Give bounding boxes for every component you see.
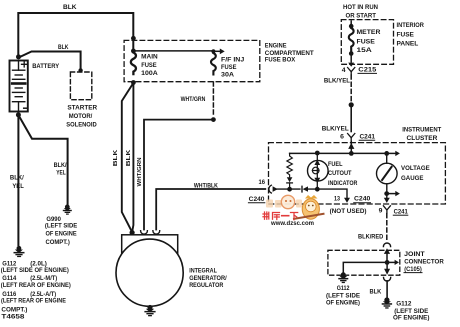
svg-text:METER: METER [357, 29, 381, 36]
svg-text:FUSE: FUSE [141, 62, 157, 69]
svg-text:HOT IN RUN: HOT IN RUN [343, 4, 378, 11]
svg-text:15A: 15A [357, 47, 373, 54]
svg-text:(C105): (C105) [404, 266, 422, 273]
junction dot above fuse box top [131, 36, 136, 41]
svg-text:OF ENGINE): OF ENGINE) [326, 300, 360, 307]
underline (C105) [404, 272, 422, 274]
label MAIN FUSE 100A [141, 54, 158, 78]
svg-text:(LEFT SIDE: (LEFT SIDE [326, 292, 361, 299]
svg-text:OR START: OR START [346, 13, 377, 20]
svg-text:BLK/YEL: BLK/YEL [324, 78, 350, 85]
resistor (cluster) [287, 153, 292, 176]
diode on WHT/BLK run [302, 186, 308, 192]
svg-text:(LEFT REAR OF ENGINE): (LEFT REAR OF ENGINE) [1, 282, 71, 289]
underline C241 (pin 9) [393, 214, 408, 216]
ground at generator [144, 305, 155, 316]
label METER FUSE 15A [357, 29, 381, 54]
underline C240 (pin 16) [248, 202, 264, 204]
red CJK glyph blocks (drawn) [263, 212, 298, 220]
svg-text:YEL: YEL [56, 169, 66, 176]
label INTEGRAL GENERATOR/REGULATOR [189, 268, 227, 290]
svg-text:MOTOR/: MOTOR/ [69, 113, 93, 120]
svg-text:GENERATOR/: GENERATOR/ [189, 275, 227, 282]
arrow down at joint connector bottom [384, 262, 390, 274]
connector C241 (pin 6) [348, 134, 355, 142]
svg-text:C241: C241 [360, 133, 376, 140]
svg-text:SOLENOID: SOLENOID [66, 122, 97, 129]
underline C241 (pin 6) [359, 139, 375, 141]
svg-text:INTEGRAL: INTEGRAL [189, 268, 217, 275]
svg-text:13: 13 [334, 195, 340, 202]
svg-text:4: 4 [342, 67, 346, 74]
integral generator/regulator [116, 235, 183, 306]
label 4 C215 [342, 67, 377, 75]
svg-text:FUSE: FUSE [221, 64, 237, 71]
junction dot resistor bottom [287, 187, 292, 192]
junction dot BLK/YEL [349, 102, 354, 107]
connector 16 C240 at cluster left border [269, 185, 278, 193]
arrow down at cluster bottom border [384, 198, 390, 203]
wire WHT/GRN dashed from F/F INJ fuse [212, 82, 214, 117]
label STARTER MOTOR/SOLENOID [66, 104, 97, 128]
junction dot meter fuse top [349, 24, 354, 29]
junction dot inside joint connector [385, 260, 390, 265]
ground G112 (battery) [14, 246, 25, 257]
wire BLK battery positive to engine compartment fuse box (top run) [18, 13, 133, 57]
svg-text:WHT/GRN: WHT/GRN [181, 96, 206, 103]
label BLK/YEL (G990 wire) [54, 162, 67, 176]
wire BLK/RED dashed [386, 214, 388, 242]
svg-text:FUEL: FUEL [328, 161, 343, 168]
ground G990 [63, 205, 72, 215]
svg-text:C241: C241 [394, 208, 409, 215]
svg-text:9: 9 [379, 208, 383, 215]
meter fuse 15A [349, 28, 354, 51]
wire BLK fuse box to generator (left bowed run) [122, 83, 133, 231]
svg-text:CONNECTOR: CONNECTOR [404, 259, 444, 266]
wire cluster internal bus [290, 152, 387, 154]
wire BLK/YEL dashed below C215 [350, 75, 352, 101]
interior fuse panel box [341, 20, 393, 65]
junction dot fuel indicator bottom [315, 187, 320, 192]
label FUEL CUTOUT INDICATOR [328, 161, 358, 187]
svg-text:BLK/: BLK/ [54, 162, 67, 169]
svg-text:VOLTAGE: VOLTAGE [401, 165, 430, 172]
junction dot main fuse top [131, 49, 136, 54]
svg-text:BLK: BLK [370, 289, 382, 296]
junction dot WHT/GRN [211, 117, 216, 122]
main fuse 100A [131, 53, 136, 75]
ground G112 (right) [382, 297, 392, 308]
svg-text:www.dzsc.com: www.dzsc.com [270, 220, 314, 227]
wire meter fuse to connector C215 [350, 54, 352, 63]
label F/F INJ FUSE 30A [221, 57, 245, 79]
svg-text:WHT/GRN: WHT/GRN [137, 158, 143, 187]
svg-text:GAUGE: GAUGE [401, 175, 424, 182]
svg-text:6: 6 [340, 133, 344, 140]
connector cup at joint connector entry [383, 243, 390, 247]
arrow continuation right of F/F INJ fuse [213, 49, 224, 55]
junction dot bus at entry [349, 151, 354, 156]
connector C215 [348, 63, 355, 74]
svg-text:G112: G112 [337, 285, 350, 292]
underline C240 (pin 13) [354, 202, 371, 204]
svg-text:C240: C240 [249, 196, 265, 203]
wire cluster entry from C241 [350, 142, 352, 154]
arrow up into joint connector [384, 248, 390, 262]
engine compartment fuse box [124, 40, 260, 81]
F/F INJ fuse 30A [211, 53, 216, 75]
wire BLK/YEL battery negative to ground G112 [17, 115, 19, 245]
junction dot at generator box top [130, 230, 135, 235]
svg-text:(LEFT SIDE OF ENGINE): (LEFT SIDE OF ENGINE) [1, 267, 69, 274]
svg-text:OF ENGINE: OF ENGINE [46, 231, 78, 238]
arrow continuation right of bus [387, 151, 400, 156]
svg-text:CLUSTER: CLUSTER [407, 135, 438, 142]
wire BLK/YEL to instrument cluster [350, 105, 352, 132]
svg-text:JOINT: JOINT [404, 251, 425, 258]
svg-text:C240: C240 [354, 196, 371, 203]
arrow up at cluster top border [348, 143, 354, 149]
fuel cutout indicator [308, 153, 329, 189]
svg-text:COMPT.): COMPT.) [1, 307, 27, 314]
svg-text:30A: 30A [221, 72, 234, 79]
svg-text:REGULATOR: REGULATOR [189, 282, 224, 289]
svg-text:COMPT.): COMPT.) [46, 239, 70, 246]
wire WHT/BLK generator to instrument cluster [156, 189, 265, 230]
svg-text:BLK/YEL: BLK/YEL [322, 125, 349, 132]
junction dot battery positive [16, 54, 21, 59]
svg-text:ENGINE: ENGINE [265, 42, 287, 49]
wire BLK fuse box to generator (straight run) [132, 83, 133, 232]
junction dot below voltage gauge [384, 191, 389, 196]
ground G112 (joint connector left) [338, 272, 348, 283]
label G112 (right) [393, 300, 429, 321]
svg-text:PANEL: PANEL [397, 41, 419, 48]
svg-text:16: 16 [259, 179, 266, 186]
svg-text:100A: 100A [141, 70, 158, 77]
wire BLK joint connector to ground G112 (right) [386, 281, 388, 298]
junction dot battery negative [16, 112, 21, 117]
wire WHT/BLK inside cluster [277, 189, 347, 198]
svg-text:(LEFT SIDE: (LEFT SIDE [45, 223, 78, 230]
connector cup below joint connector [384, 277, 391, 281]
junction dot bus at voltage gauge [384, 151, 389, 156]
svg-text:INDICATOR: INDICATOR [328, 180, 358, 187]
svg-text:BLK: BLK [126, 149, 132, 167]
svg-text:BLK: BLK [113, 149, 119, 167]
junction dot at starter solenoid [78, 68, 82, 72]
wire BLK battery positive to starter solenoid [19, 52, 81, 70]
svg-text:FUSE: FUSE [357, 39, 376, 46]
watermark dzsc.com [263, 195, 324, 227]
label G112/G114/G116 ground text block [1, 261, 71, 321]
svg-text:FUSE: FUSE [397, 32, 415, 39]
junction dot main fuse bottom [131, 80, 136, 85]
svg-text:C215: C215 [358, 67, 377, 74]
label G112 (joint connector left) [326, 285, 361, 307]
svg-text:BLK/: BLK/ [10, 174, 24, 181]
svg-text:FUSE BOX: FUSE BOX [265, 57, 296, 64]
instrument cluster box [269, 143, 446, 204]
wire joint connector to ground G112 (left) [343, 262, 387, 272]
label 6 C241 [340, 133, 375, 140]
voltage gauge [377, 153, 398, 198]
label G990 [45, 216, 78, 246]
svg-text:T4658: T4658 [1, 314, 25, 321]
svg-text:STARTER: STARTER [67, 104, 97, 111]
svg-text:BLK: BLK [63, 4, 77, 11]
label INSTRUMENT CLUSTER [402, 126, 441, 142]
arrow down to 13 C240 (not used) [344, 198, 350, 203]
svg-text:G112: G112 [396, 300, 412, 307]
svg-text:F/F INJ: F/F INJ [221, 57, 245, 64]
connector cup WHT/GRN at generator [141, 231, 148, 234]
junction dot meter fuse bottom [349, 51, 354, 56]
svg-text:(LEFT REAR OF ENGINE: (LEFT REAR OF ENGINE [1, 298, 67, 305]
svg-text:BLK/RED: BLK/RED [358, 233, 384, 240]
svg-text:BLK: BLK [58, 44, 69, 51]
wire fuse box internal bus [133, 50, 213, 52]
svg-text:CUTOUT: CUTOUT [328, 170, 352, 177]
wire BLK/YEL battery negative to ground G990 [18, 115, 67, 204]
label BLK/YEL (left) [10, 174, 24, 190]
svg-text:BATTERY: BATTERY [32, 63, 60, 70]
diode below resistor [287, 177, 293, 189]
underline C215 [358, 72, 377, 74]
svg-text:MAIN: MAIN [141, 54, 158, 61]
label HOT IN RUN OR START [343, 4, 378, 20]
joint connector box [328, 250, 400, 275]
svg-text:INSTRUMENT: INSTRUMENT [402, 126, 441, 133]
label 9 C241 [379, 208, 409, 216]
label 13 C240 [334, 195, 371, 202]
connector C241 (pin 9) [383, 206, 390, 213]
battery [10, 61, 28, 112]
starter motor/solenoid box [70, 72, 91, 100]
arrow continuation right below gauge [387, 191, 400, 196]
label INTERIOR FUSE PANEL [397, 22, 425, 48]
svg-text:(NOT USED): (NOT USED) [330, 208, 367, 215]
junction dot bus at fuel indicator [315, 151, 320, 156]
arrow continuation right inside joint connector [387, 260, 399, 265]
wire meter fuse feed [350, 21, 352, 27]
label VOLTAGE GAUGE [401, 165, 430, 182]
svg-text:YEL: YEL [12, 183, 23, 190]
wire WHT/GRN to generator [144, 120, 213, 230]
label JOINT CONNECTOR (C105) [404, 251, 444, 273]
svg-text:OF ENGINE): OF ENGINE) [393, 314, 429, 321]
junction dot F/F INJ fuse top [211, 49, 215, 53]
svg-text:INTERIOR: INTERIOR [397, 22, 425, 29]
label ENGINE COMPARTMENT FUSE BOX [265, 42, 314, 63]
svg-text:WHT/BLK: WHT/BLK [194, 183, 218, 190]
connector cup WHT/BLK at generator [153, 231, 160, 234]
